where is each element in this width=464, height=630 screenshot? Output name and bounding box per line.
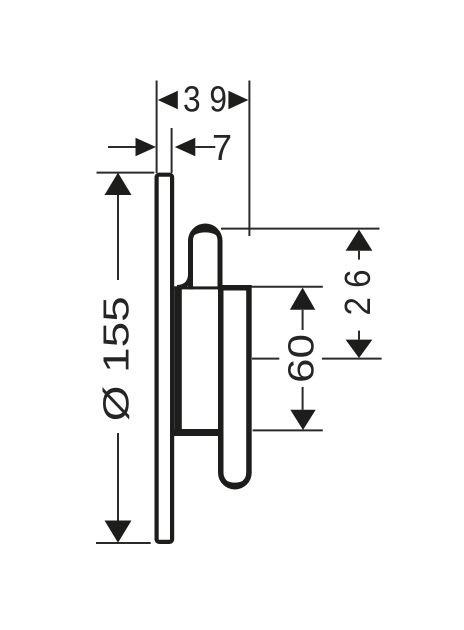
dim 39 right arrow [228,91,248,109]
valve body block fill [182,289,218,429]
svg-text:7: 7 [212,127,232,168]
svg-text:Ø 155: Ø 155 [96,296,137,421]
dim 60 down arrow [290,410,315,430]
extension line: body bottom (60 dim) [253,429,323,431]
escutcheon plate (side view) [157,175,173,542]
dim 7 left arrow [136,138,157,156]
svg-text:3 9: 3 9 [183,79,227,120]
svg-text:2 6: 2 6 [337,270,378,316]
dim Ø155 stem upper [117,195,119,280]
svg-text:60: 60 [281,334,322,383]
valve body block left edge [174,286,182,436]
extension line: plate left edge up (39/7 dims) [156,81,158,174]
dim 7 right arrow [175,138,196,156]
lever handle capsule (upper) [191,226,221,291]
extension line: body top (60 dim) [251,286,323,288]
dim Ø155 bottom arrow [105,521,132,543]
dim 60 upper stem [302,310,304,330]
extension line: plate right edge up (7 dim) [171,128,173,173]
handle grip bottom cap thickening [221,473,249,487]
extension line: plate bottom (Ø155) [96,542,151,544]
dim 60 up arrow [290,288,315,310]
dim 26 up arrow [346,230,373,251]
dim 7 right leader [195,146,215,148]
lever cap top thickening [191,226,221,241]
handle grip capsule (right, rounded bottom) [221,285,249,487]
extension line: plate top (Ø155) [97,172,155,174]
extension line: handle top (26 dim) [221,228,380,230]
valve body block bottom edge [170,429,221,436]
extension line: handle centre (26 dim bottom) segment B [322,358,382,360]
dim 26 upper stem [358,251,360,260]
dim Ø155 top arrow [105,173,132,195]
dim 39 left arrow [158,91,178,109]
fillet at handle base [177,272,191,287]
dim 60 lower stem [302,387,304,410]
extension line: 39 right [248,81,250,237]
dim Ø155 stem lower [117,433,119,521]
dim 7 left leader [108,146,136,148]
dim 26 lower stem [358,331,360,340]
extension line: handle centre (26 dim bottom) segment A [252,358,279,360]
valve body block top edge [174,286,222,289]
dim 26 down arrow [346,340,373,358]
